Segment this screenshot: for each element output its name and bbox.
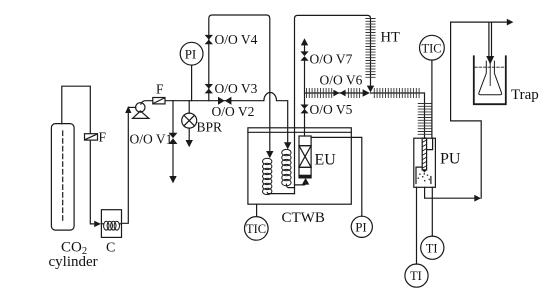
wire C to pump: [122, 113, 129, 224]
valve O/O V5: [300, 105, 308, 114]
svg-text:O/O V5: O/O V5: [310, 102, 353, 117]
wire EU pressure tap: [311, 137, 362, 216]
wire coil1 outlet: [267, 193, 294, 194]
heat tape ticks HT vertical: [366, 19, 375, 78]
svg-text:PI: PI: [355, 219, 367, 234]
flow arrow HT down: [367, 86, 374, 93]
purge unit PU: [414, 138, 436, 187]
main CO2 line: [141, 101, 264, 104]
flow arrow gas vent: [507, 19, 514, 26]
filter F1: [85, 134, 98, 140]
heat tape ticks left of V6: [307, 88, 332, 97]
temperature indicator TI lower: [405, 264, 428, 287]
wire tube into trap: [489, 22, 492, 85]
filter F2: [153, 98, 165, 104]
heat tape ticks to PU horiz: [374, 88, 419, 97]
wire TIC right stem: [431, 60, 433, 138]
wire V1 branch: [172, 101, 174, 133]
svg-text:BPR: BPR: [197, 120, 223, 135]
wire V7 vent: [304, 45, 306, 51]
water bath CTWB box: [248, 128, 351, 204]
heat tape ticks to PU vert: [418, 104, 431, 135]
wire TI stem right: [431, 187, 433, 236]
svg-text:cylinder: cylinder: [49, 254, 98, 270]
trap water level: [475, 66, 505, 68]
valve O/O V7: [300, 51, 308, 60]
svg-text:TI: TI: [426, 241, 438, 255]
flow arrow V1 vent: [169, 176, 176, 183]
water level line: [248, 131, 351, 133]
cooler C: [101, 210, 121, 238]
wire bypass riser: [295, 15, 371, 193]
svg-text:CTWB: CTWB: [282, 210, 325, 226]
flow arrow to trap riser: [474, 195, 481, 202]
wire TIC left stem: [256, 204, 258, 216]
svg-text:F: F: [156, 82, 164, 97]
valve O/O V4: [205, 35, 213, 44]
wire heated outlet line: [305, 92, 364, 94]
wire coil2 outlet: [286, 184, 294, 187]
svg-text:HT: HT: [381, 29, 400, 45]
svg-text:C: C: [106, 241, 115, 256]
flow arrow into EU: [302, 178, 309, 185]
svg-text:TIC: TIC: [422, 41, 442, 55]
wire cylinder to cooler C: [62, 86, 94, 224]
svg-text:TIC: TIC: [246, 222, 266, 236]
svg-text:F: F: [99, 130, 107, 145]
valve O/O V3: [205, 84, 213, 93]
temperature indicator TI upper: [421, 236, 444, 259]
svg-text:O/O V3: O/O V3: [215, 81, 258, 96]
flow arrow into coil1: [266, 151, 273, 158]
flow arrow into HT junction: [363, 89, 370, 96]
trap flask: [479, 61, 502, 95]
pump P: [133, 103, 149, 119]
wire crossover hump: [264, 92, 288, 142]
svg-text:Trap: Trap: [511, 87, 539, 103]
valve O/O V6: [333, 90, 345, 97]
flow arrow V7 vent: [301, 38, 308, 45]
pressure indicator PI: [180, 42, 203, 65]
flow arrow into coil2: [284, 142, 291, 149]
wire EU outlet riser: [304, 61, 306, 136]
wire BPR vent: [188, 128, 190, 140]
wire V1 vent: [172, 144, 174, 177]
temperature controller TIC right: [420, 35, 445, 60]
valve O/O V1: [169, 133, 178, 144]
wire feed to EU bottom: [295, 183, 306, 185]
wire PI stem: [191, 65, 193, 101]
CO2 cylinder: [51, 124, 74, 231]
flow arrow into flask: [486, 56, 494, 65]
flow arrow up to pump: [125, 106, 131, 113]
preheat coil 2: [282, 149, 291, 185]
pressure indicator PI bottom: [351, 216, 372, 237]
heat tape ticks right of V6: [348, 88, 359, 97]
svg-text:O/O V4: O/O V4: [215, 32, 258, 47]
svg-text:PU: PU: [440, 151, 461, 168]
wire TI stem left: [416, 187, 418, 264]
svg-text:PI: PI: [185, 46, 197, 61]
temperature controller TIC left: [244, 217, 268, 241]
svg-text:O/O V1: O/O V1: [130, 132, 173, 147]
svg-text:O/O V2: O/O V2: [212, 104, 255, 119]
trap beaker: [474, 56, 506, 104]
preheat coil 1: [263, 158, 272, 194]
wire trap riser right: [451, 22, 482, 198]
wire V3 V4 riser: [209, 15, 270, 151]
svg-text:EU: EU: [315, 152, 337, 169]
wire trap top line: [451, 21, 507, 23]
svg-text:O/O V6: O/O V6: [320, 72, 363, 87]
wire BPR stem: [188, 101, 190, 114]
wire junction to PU: [371, 93, 425, 138]
extraction unit EU: [298, 136, 311, 179]
wire pump inlet: [128, 106, 135, 108]
valve O/O V2: [218, 97, 231, 105]
back-pressure regulator BPR: [182, 113, 197, 128]
svg-text:O/O V7: O/O V7: [310, 52, 353, 67]
svg-text:TI: TI: [410, 269, 422, 283]
flow arrow BPR vent: [186, 140, 193, 147]
wire PU outlet: [425, 187, 475, 198]
flow arrow into C: [94, 221, 101, 227]
